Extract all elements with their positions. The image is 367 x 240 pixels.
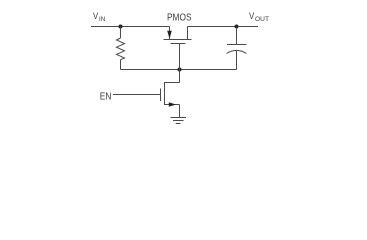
svg-text:EN: EN [100,91,112,102]
node junction dot VIN/resistor [119,25,123,29]
node junction dot bottom rail [178,68,182,72]
svg-text:V: V [249,11,254,21]
resistor R1 [117,27,125,70]
svg-text:V: V [93,11,98,21]
wire bottom rail [121,69,237,71]
wire VIN to PMOS source [91,26,170,28]
node junction dot VOUT/capacitor [235,25,239,29]
node VIN label [93,11,105,23]
svg-text:IN: IN [99,16,105,23]
svg-text:PMOS: PMOS [167,12,192,23]
capacitor C1 [227,27,247,70]
svg-text:OUT: OUT [255,16,269,23]
ground [171,118,187,124]
wire PMOS drain to VOUT [188,26,259,28]
transistor Q1 PMOS [164,27,192,70]
wire EN to NMOS gate [113,94,161,96]
transistor Q2 NMOS [161,70,180,118]
node VOUT label [249,11,269,23]
